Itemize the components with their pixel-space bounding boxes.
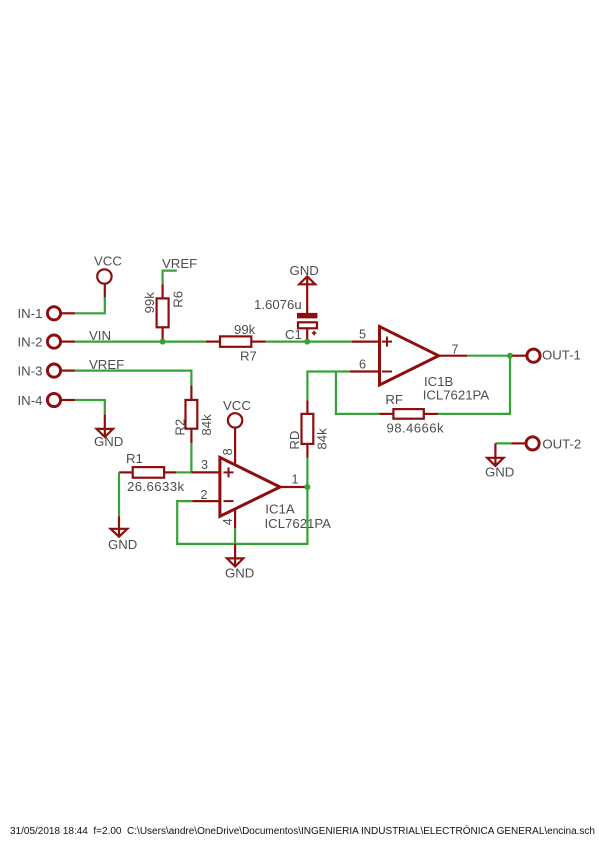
wire pin2 feedback loop xyxy=(177,487,307,544)
IC1A pin 3 xyxy=(191,471,220,473)
resistor R1 xyxy=(119,467,176,478)
svg-text:RD: RD xyxy=(287,431,302,450)
svg-text:R6: R6 xyxy=(171,291,186,308)
svg-text:ICL7621PA: ICL7621PA xyxy=(423,388,490,403)
wire IN-4 to GND xyxy=(75,400,105,414)
svg-text:4: 4 xyxy=(221,518,235,525)
svg-text:26.6633k: 26.6633k xyxy=(127,479,184,494)
IC1A plus input mark xyxy=(224,467,234,477)
svg-text:OUT-1: OUT-1 xyxy=(542,348,581,363)
connector pad IN-4 xyxy=(47,393,75,406)
wire feedback OUT-1 to RF xyxy=(438,356,510,414)
resistor R6 xyxy=(157,284,169,341)
svg-text:84k: 84k xyxy=(314,428,329,450)
junction at IC1A pin1 xyxy=(304,484,310,490)
connector pad IN-3 xyxy=(47,364,75,377)
svg-text:6: 6 xyxy=(359,357,366,371)
svg-text:ICL7621PA: ICL7621PA xyxy=(265,516,332,531)
IC1B pin 7 xyxy=(439,355,467,357)
svg-text:VREF: VREF xyxy=(89,357,124,372)
svg-text:84k: 84k xyxy=(199,414,214,436)
connector pad OUT-2 xyxy=(512,437,540,450)
wire R1 to pin3 xyxy=(176,471,191,473)
ground symbol below OUT-2 xyxy=(487,443,503,466)
svg-text:GND: GND xyxy=(94,434,123,449)
wire pin4 to GND crossing xyxy=(234,528,236,544)
connector pad OUT-1 xyxy=(512,349,540,362)
resistor RD xyxy=(302,400,314,458)
svg-text:GND: GND xyxy=(485,464,514,479)
svg-text:99k: 99k xyxy=(142,292,157,314)
wire RD bottom to pin1 xyxy=(306,458,308,487)
svg-text:GND: GND xyxy=(225,565,254,580)
svg-text:VCC: VCC xyxy=(94,254,122,269)
junction on VIN at R6 xyxy=(160,339,166,345)
capacitor C1 xyxy=(297,313,317,342)
IC1A pin 1 xyxy=(280,486,307,488)
wire R1 to GND xyxy=(118,472,120,516)
svg-text:R1: R1 xyxy=(126,451,143,466)
ground symbol above C1 xyxy=(299,276,315,313)
junction on VIN at C1 xyxy=(304,339,310,345)
IC1A minus input mark xyxy=(224,500,234,502)
svg-text:VREF: VREF xyxy=(162,256,197,271)
svg-text:31/05/2018 18:44 f=2.00 C:\U: 31/05/2018 18:44 f=2.00 C:\Users\andre\O… xyxy=(10,824,595,837)
svg-text:IN-4: IN-4 xyxy=(18,393,43,408)
svg-text:RF: RF xyxy=(385,392,403,407)
ground symbol below IC1A xyxy=(227,544,243,567)
svg-text:7: 7 xyxy=(452,342,459,356)
wire pin6 node to RD xyxy=(307,372,349,401)
C1 polarity plus xyxy=(312,331,317,336)
wire pin7 to OUT-1 xyxy=(467,355,512,357)
power symbol VCC above IC1A xyxy=(228,413,242,427)
IC1A pin 8 xyxy=(234,428,236,465)
svg-text:GND: GND xyxy=(108,537,137,552)
ground symbol below IN-4 xyxy=(97,414,113,437)
ground symbol below R1 xyxy=(111,516,128,537)
svg-text:2: 2 xyxy=(201,488,208,502)
svg-text:R2: R2 xyxy=(172,419,187,436)
svg-text:IN-1: IN-1 xyxy=(18,306,43,321)
svg-text:VCC: VCC xyxy=(223,398,251,413)
wire pin6 branch down to RF xyxy=(336,372,379,414)
IC1B pin 6 xyxy=(350,370,380,372)
op-amp IC1B body xyxy=(380,327,439,386)
svg-text:IN-3: IN-3 xyxy=(18,363,43,378)
IC1B minus input mark xyxy=(382,371,392,373)
svg-text:98.4666k: 98.4666k xyxy=(387,420,444,435)
svg-text:IN-2: IN-2 xyxy=(18,334,43,349)
IC1B plus input mark xyxy=(382,337,392,347)
svg-text:1: 1 xyxy=(292,473,299,487)
wire VREF stub at R6 xyxy=(163,271,177,285)
wire IN-1 to VCC xyxy=(75,298,105,314)
power symbol VCC top left xyxy=(97,269,111,297)
svg-text:8: 8 xyxy=(221,448,235,455)
connector pad IN-2 xyxy=(47,335,75,348)
svg-text:IC1A: IC1A xyxy=(265,502,295,517)
op-amp IC1A body xyxy=(220,457,280,516)
wire VREF net from IN-3 to R2 xyxy=(75,371,191,386)
wire R2 to R1 junction xyxy=(190,443,192,472)
resistor RF xyxy=(379,409,438,419)
IC1A pin 4 xyxy=(234,509,236,529)
svg-text:VIN: VIN xyxy=(89,328,111,343)
wire OUT-2 to GND xyxy=(495,442,511,444)
IC1A pin 2 xyxy=(192,500,220,502)
connector pad IN-1 xyxy=(47,307,75,320)
svg-text:1.6076u: 1.6076u xyxy=(254,297,302,312)
wire VIN net left segment xyxy=(75,341,206,343)
svg-text:GND: GND xyxy=(290,263,319,278)
svg-text:C1: C1 xyxy=(285,327,302,342)
wire VIN net right segment xyxy=(266,341,352,343)
svg-text:99k: 99k xyxy=(234,322,256,337)
svg-text:3: 3 xyxy=(201,458,208,472)
junction at OUT-1 feedback xyxy=(507,353,513,359)
resistor R2 xyxy=(186,385,198,443)
IC1B pin 5 xyxy=(352,341,380,343)
svg-text:OUT-2: OUT-2 xyxy=(542,436,581,451)
svg-text:5: 5 xyxy=(359,327,366,341)
svg-text:R7: R7 xyxy=(240,349,257,364)
resistor R7 xyxy=(206,336,266,346)
